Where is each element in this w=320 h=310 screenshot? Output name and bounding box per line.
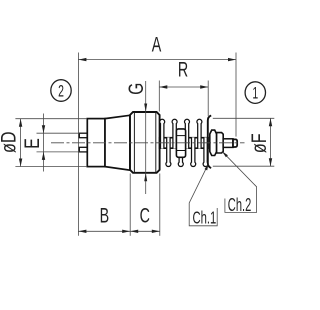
svg-text:1: 1: [252, 83, 258, 102]
svg-text:Ch.2: Ch.2: [228, 195, 251, 216]
spring washer plate: [208, 116, 211, 169]
dimension R extension right: [207, 81, 209, 117]
shaft tip: [233, 139, 237, 147]
dimension oD extension bottom: [15, 166, 87, 168]
body rear rectangle: [87, 119, 105, 167]
Ch.2 leader line: [222, 151, 257, 212]
dimension R line: [159, 86, 208, 88]
dimension E line: [43, 114, 45, 172]
svg-text:C: C: [140, 204, 150, 227]
flange face line left: [133, 112, 135, 172]
dimension A extension line right: [235, 53, 237, 137]
flange face line right: [155, 112, 157, 172]
dimension B/C shared extension middle: [129, 174, 131, 236]
dimension oF extension bottom: [213, 165, 274, 167]
svg-text:E: E: [21, 138, 45, 149]
terminal pin upper: [79, 133, 87, 138]
front nut: [217, 133, 224, 153]
threaded bushing: [223, 139, 233, 148]
spring coil lower loop 3: [191, 137, 196, 166]
spring coil upper loop 4: [197, 119, 202, 148]
Ch.1 leader line: [189, 163, 217, 225]
dimension B line: [78, 230, 130, 232]
spring coil lower loop 1: [166, 137, 171, 166]
spring coil upper loop 2: [172, 119, 177, 148]
body taper section: [105, 115, 130, 170]
flange: [130, 112, 160, 173]
dimension C extension right: [159, 174, 161, 236]
dimension R extension left: [158, 81, 160, 112]
circled number 2: [51, 80, 71, 102]
svg-text:øF: øF: [248, 133, 272, 153]
dimension oF extension top: [213, 117, 274, 119]
svg-text:G: G: [123, 83, 147, 95]
dimension E extension top: [37, 132, 80, 134]
spring coil upper loop 3: [185, 119, 190, 148]
spring coil lower loop 4: [203, 137, 208, 166]
travelling collar nut on spindle: [176, 129, 185, 157]
dimension A line: [78, 59, 236, 61]
dimension oD extension top: [15, 118, 87, 120]
centerline: [51, 142, 245, 144]
dimension E extension bottom: [37, 151, 80, 153]
svg-text:2: 2: [58, 81, 64, 100]
svg-text:A: A: [152, 33, 162, 56]
svg-text:Ch.1: Ch.1: [193, 208, 217, 228]
dimension oD line: [20, 119, 22, 167]
spring coil upper loop 1: [160, 119, 165, 148]
rear hex nut: [210, 130, 217, 155]
shaft (threaded spindle): [160, 138, 209, 149]
dimension C line: [130, 230, 160, 232]
terminal pin lower: [79, 147, 87, 152]
spring coil lower loop 2: [178, 137, 183, 166]
dimension A extension line left: [77, 53, 79, 236]
svg-text:øD: øD: [0, 131, 21, 152]
dimension G leader line: [145, 81, 147, 194]
circled number 1: [245, 82, 265, 104]
svg-text:R: R: [178, 58, 188, 81]
dimension oF line: [270, 118, 272, 166]
svg-text:B: B: [100, 204, 110, 227]
